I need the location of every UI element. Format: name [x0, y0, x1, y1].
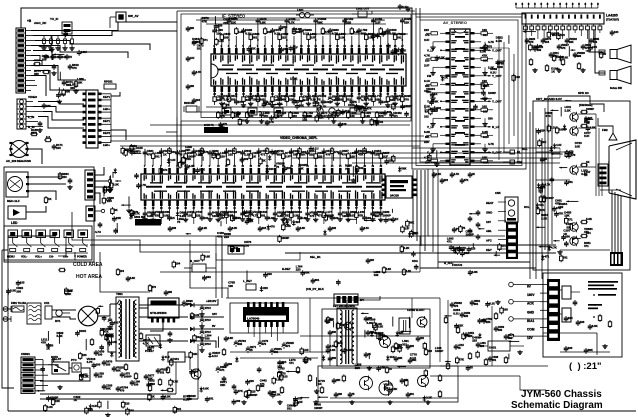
- part 395 lj: [116, 223, 118, 233]
- svg-text:8V: 8V: [212, 324, 216, 328]
- svg-text:103: 103: [106, 363, 111, 367]
- part 743 bsd: [293, 401, 295, 403]
- svg-text:471: 471: [545, 255, 550, 259]
- svg-text:5.6K: 5.6K: [364, 114, 370, 118]
- svg-text:220: 220: [410, 344, 415, 348]
- flyback T901: [337, 308, 357, 366]
- part 163 above U301: [339, 163, 341, 166]
- svg-text:104: 104: [176, 261, 181, 265]
- part 212 L-U401: [440, 83, 446, 85]
- wire pin5: [556, 30, 558, 36]
- part 541 df: [373, 321, 375, 323]
- capacitor C8: [59, 54, 61, 56]
- svg-text:22K: 22K: [338, 341, 343, 345]
- wire crt internal: [544, 108, 546, 250]
- svg-text:3.3K: 3.3K: [406, 269, 412, 273]
- ground pw: [59, 385, 61, 387]
- svg-text:2.2K: 2.2K: [199, 168, 205, 172]
- part 351 defl: [409, 358, 411, 360]
- part 637 tif: [371, 19, 385, 21]
- grounds defl: [243, 400, 245, 402]
- svg-text:47K: 47K: [482, 54, 488, 58]
- connector CN301: [85, 170, 95, 200]
- svg-text:223: 223: [262, 226, 267, 230]
- svg-text:ACK: ACK: [527, 302, 535, 306]
- svg-text:223: 223: [150, 382, 155, 386]
- svg-text:104: 104: [204, 216, 209, 220]
- part 594 crt: [565, 241, 567, 243]
- resistor R267: [580, 164, 582, 166]
- capacitor C39: [201, 317, 203, 319]
- part 440 mid: [412, 251, 414, 253]
- part 689 jb: [293, 220, 295, 222]
- part 114 below U101: [394, 92, 396, 95]
- part 694 jb: [248, 216, 250, 218]
- part 223 R-U401: [475, 41, 482, 43]
- line filter L801: [27, 303, 41, 324]
- svg-text:47K: 47K: [238, 389, 243, 393]
- part 190 below U301: [315, 206, 317, 211]
- svg-text:681: 681: [425, 135, 430, 139]
- svg-text:100: 100: [129, 409, 134, 413]
- part 155 above U301: [274, 163, 276, 166]
- part 140 above U301: [152, 163, 154, 166]
- svg-text:1K: 1K: [114, 208, 118, 212]
- svg-text:SEL_B1: SEL_B1: [310, 255, 321, 259]
- IC U601 LA4285: [522, 13, 604, 24]
- part 754 rm2: [459, 225, 461, 227]
- svg-text:470: 470: [560, 33, 565, 37]
- capacitor C47: [103, 384, 105, 386]
- svg-text:100: 100: [385, 31, 390, 35]
- svg-text:8ohm 5W: 8ohm 5W: [610, 86, 622, 90]
- pin caps row: [515, 3, 517, 9]
- part 583 au: [548, 31, 550, 33]
- svg-text:470: 470: [465, 333, 470, 337]
- svg-text:470: 470: [222, 122, 227, 126]
- part 473 pw1: [47, 331, 49, 341]
- resistor R315: [609, 320, 611, 322]
- part 394 lj: [103, 197, 105, 199]
- part 216 L-U401: [440, 117, 446, 119]
- svg-text:0.1U: 0.1U: [410, 356, 416, 360]
- part 407 lj: [128, 196, 130, 208]
- svg-text:1K: 1K: [48, 197, 52, 201]
- part 484 pw1: [85, 339, 87, 350]
- resistor R252: [530, 58, 532, 60]
- part 604 tl: [53, 53, 64, 55]
- part 719 pbs: [126, 408, 128, 410]
- part 214 L-U401: [440, 100, 446, 102]
- part 364 defl2: [447, 362, 449, 364]
- svg-text:56K: 56K: [106, 387, 111, 391]
- top parts right: [399, 4, 401, 6]
- svg-text:56K: 56K: [299, 103, 304, 107]
- svg-text:47K: 47K: [555, 202, 561, 206]
- part 504 pw2: [170, 379, 172, 381]
- part 429 b2: [273, 104, 283, 106]
- svg-text:1UF: 1UF: [165, 355, 171, 359]
- part 158 above U301: [299, 163, 301, 166]
- part 93 below U101: [243, 92, 245, 95]
- part 178 below U301: [217, 206, 219, 211]
- part 610 avl: [429, 107, 431, 109]
- svg-text:1UF: 1UF: [297, 400, 303, 404]
- svg-text:56K: 56K: [433, 100, 438, 104]
- part 148 above U301: [217, 163, 219, 166]
- svg-text:22K: 22K: [192, 352, 197, 356]
- svg-text:1K: 1K: [472, 172, 475, 176]
- part 486 pw1: [111, 351, 113, 353]
- part 731 df2: [396, 331, 398, 333]
- part 358 defl2: [309, 374, 311, 376]
- svg-text:223: 223: [31, 131, 36, 135]
- part 498 pw2: [148, 346, 150, 348]
- svg-text:RP201: RP201: [104, 80, 113, 84]
- part 704 jb: [411, 230, 413, 232]
- CRT board outline: [533, 101, 630, 270]
- part 571 au: [536, 44, 538, 46]
- part 157 above U301: [290, 163, 292, 166]
- capacitor C204: [329, 226, 331, 228]
- bridge D801: [78, 306, 98, 326]
- part 742 df2: [392, 345, 394, 347]
- svg-text:223: 223: [444, 178, 449, 182]
- svg-text:3.3K: 3.3K: [482, 130, 489, 134]
- part 748 bsd: [295, 399, 297, 401]
- part 713 pwl: [98, 305, 103, 307]
- part 304 crtb: [553, 240, 559, 242]
- wire crt rgb out: [578, 113, 596, 115]
- svg-text:330: 330: [292, 114, 297, 118]
- resistor R29: [80, 249, 86, 252]
- part 452 mid: [264, 272, 266, 274]
- wire IR links: [30, 172, 60, 177]
- part 63 above U101: [221, 44, 223, 48]
- svg-text:503F30: 503F30: [184, 101, 194, 105]
- svg-text:1UF: 1UF: [556, 143, 562, 147]
- part 454 mid: [312, 278, 314, 280]
- part 236 R-U401: [475, 151, 482, 153]
- part 159 above U301: [307, 163, 309, 166]
- svg-text:C_IN: C_IN: [427, 150, 434, 154]
- transistor Q270: [570, 237, 578, 245]
- part 172 below U301: [168, 206, 170, 211]
- part 520 vo: [278, 371, 280, 373]
- part 557 brm: [508, 354, 510, 360]
- part 523 vo: [279, 360, 281, 362]
- svg-text:2.2K: 2.2K: [358, 105, 364, 109]
- part 716 pwl: [101, 329, 103, 331]
- part 736 df2: [327, 348, 329, 350]
- part 529 df: [386, 366, 388, 368]
- capacitor C6: [45, 54, 47, 56]
- svg-text:3.3K: 3.3K: [266, 102, 272, 106]
- resistor R269: [580, 221, 582, 223]
- svg-text:4.7K: 4.7K: [143, 341, 150, 345]
- part 226 R-U401: [475, 66, 482, 68]
- svg-text:470: 470: [487, 45, 492, 49]
- svg-text:5.6K: 5.6K: [386, 267, 392, 271]
- part 646 tif: [229, 17, 237, 19]
- pin 10 U601: [579, 26, 583, 30]
- part 439 b2: [392, 102, 394, 104]
- part 402 lj: [109, 176, 111, 180]
- part 666 ja: [266, 167, 268, 169]
- part 679 ja: [168, 158, 170, 160]
- wire stub6: [282, 327, 284, 333]
- svg-text:104: 104: [483, 33, 488, 37]
- part 105 below U101: [329, 92, 331, 95]
- part 154 above U301: [266, 163, 268, 166]
- wire audio R: [595, 30, 605, 73]
- part 448 mid: [202, 254, 204, 256]
- svg-text:56K: 56K: [588, 348, 593, 352]
- svg-text:10K: 10K: [398, 356, 403, 360]
- wire pin8: [574, 30, 576, 33]
- svg-text:102: 102: [62, 55, 67, 59]
- svg-text:331: 331: [508, 336, 513, 340]
- capacitor C325: [489, 356, 491, 358]
- svg-text:MENU: MENU: [7, 255, 15, 259]
- connector CN302: [86, 206, 95, 221]
- part 422 b2: [339, 122, 341, 124]
- part 469 rm: [457, 247, 459, 249]
- svg-text:10K: 10K: [482, 156, 488, 160]
- svg-text:104: 104: [368, 97, 373, 101]
- part 530 df: [389, 387, 391, 389]
- svg-text:75: 75: [345, 167, 349, 171]
- vertical out U303 frame: [230, 303, 298, 333]
- svg-text:22K: 22K: [355, 366, 361, 370]
- part 70 above U101: [271, 44, 273, 48]
- part 492 pw2: [161, 389, 169, 391]
- part 91 below U101: [228, 92, 230, 95]
- part 112 below U101: [380, 92, 382, 95]
- svg-text:471: 471: [203, 38, 208, 42]
- svg-text:100: 100: [482, 28, 487, 32]
- svg-text:220: 220: [278, 370, 283, 374]
- part 680 ja: [160, 167, 162, 169]
- part 709 jb: [121, 204, 131, 206]
- svg-text:75: 75: [51, 358, 55, 362]
- svg-text:103: 103: [331, 114, 336, 118]
- svg-text:223: 223: [424, 28, 429, 32]
- svg-text:1K: 1K: [444, 75, 448, 79]
- part 428 b2: [371, 118, 373, 120]
- svg-text:GND: GND: [486, 210, 492, 214]
- svg-text:SCL: SCL: [524, 205, 530, 209]
- capacitor C319: [483, 318, 485, 320]
- svg-text:5.6K: 5.6K: [204, 255, 210, 259]
- svg-text:1K: 1K: [262, 158, 266, 162]
- svg-text:331: 331: [481, 318, 486, 322]
- part 737 df2: [333, 321, 335, 328]
- wire jungle-defl vlink: [221, 236, 223, 298]
- svg-text:22K: 22K: [274, 149, 279, 153]
- part 593 crt: [572, 237, 581, 239]
- part 613 avl: [431, 100, 433, 102]
- wire to bridge: [52, 309, 76, 311]
- IC U302 eeprom: [386, 176, 412, 198]
- part 544 df: [371, 331, 373, 333]
- svg-text:4.7K: 4.7K: [134, 212, 140, 216]
- svg-text:470: 470: [270, 225, 275, 229]
- part 365 defl2: [333, 378, 335, 380]
- svg-text:223: 223: [224, 235, 229, 239]
- part 95 below U101: [257, 92, 259, 95]
- resistor R5: [71, 36, 73, 39]
- svg-text:FM: FM: [427, 74, 432, 78]
- svg-text:47K: 47K: [41, 341, 47, 345]
- H block outline: [322, 309, 430, 368]
- resistor R56: [159, 378, 161, 380]
- part 632 tif: [215, 24, 217, 26]
- diode D60: [209, 352, 211, 354]
- part 759 cs: [17, 280, 19, 282]
- svg-text:CRT_BOARD 6.3V: CRT_BOARD 6.3V: [536, 97, 562, 101]
- part 198 below U301: [380, 206, 382, 211]
- capacitor C244: [534, 46, 536, 48]
- part 279 crtb: [554, 143, 556, 145]
- part 162 above U301: [331, 163, 333, 166]
- pin 3 U601: [536, 26, 540, 30]
- svg-text:22K: 22K: [185, 148, 191, 152]
- part 161 above U301: [323, 163, 325, 166]
- capacitor C240: [451, 172, 453, 174]
- svg-text:75: 75: [177, 220, 181, 224]
- LED D201: [8, 206, 26, 219]
- capacitor C323: [477, 342, 479, 344]
- part 359 defl2: [321, 386, 323, 388]
- part 303 crtb: [540, 186, 542, 188]
- svg-text:2.2K: 2.2K: [202, 226, 208, 230]
- svg-text:470: 470: [152, 285, 157, 289]
- svg-text:223: 223: [62, 175, 67, 179]
- svg-text:104: 104: [378, 120, 383, 124]
- svg-text:470: 470: [404, 97, 409, 101]
- svg-text:2.2K: 2.2K: [106, 198, 112, 202]
- part 403 lj: [131, 212, 133, 214]
- U901 block: [488, 341, 510, 351]
- part 488 pw1: [101, 345, 103, 347]
- part 382 mid: [149, 284, 151, 286]
- part 352 defl: [425, 348, 427, 350]
- svg-text:104: 104: [614, 30, 619, 34]
- part 597 tl: [59, 72, 61, 81]
- part 735 df2: [392, 317, 394, 327]
- part 628 tif: [387, 43, 389, 45]
- part 657 ja: [333, 152, 335, 161]
- svg-text:LED: LED: [11, 221, 18, 225]
- part 408 lj: [133, 152, 142, 154]
- svg-text:471: 471: [485, 83, 490, 87]
- svg-text:COM: COM: [527, 328, 535, 332]
- capacitor C316: [451, 302, 453, 304]
- capacitor C134: [193, 98, 195, 100]
- filter CF136: [248, 108, 257, 115]
- part 640 tif: [215, 38, 217, 40]
- resistor R57: [167, 366, 169, 368]
- part 514 vo: [272, 392, 274, 394]
- capacitor C50: [145, 374, 147, 376]
- part 211 L-U401: [440, 75, 446, 77]
- svg-text:103: 103: [483, 109, 488, 113]
- IR receiver U201: [6, 172, 28, 197]
- svg-text:5.6K: 5.6K: [424, 130, 431, 134]
- part 746 bsd: [300, 397, 310, 399]
- switch SW204: [50, 230, 60, 238]
- capacitor C320: [495, 326, 497, 328]
- wire defl mesh: [226, 297, 440, 299]
- capacitor C133: [187, 84, 189, 86]
- part 673 ja: [399, 166, 401, 168]
- part 405 lj: [114, 168, 116, 170]
- svg-text:223: 223: [471, 247, 476, 251]
- part 357 defl2: [297, 366, 299, 368]
- connector SM: [510, 160, 515, 164]
- part 176 below U301: [201, 206, 203, 211]
- part 309 crtb: [566, 150, 568, 152]
- part 92 below U101: [235, 92, 237, 95]
- part 547 df: [400, 330, 411, 332]
- svg-text:104: 104: [586, 231, 591, 235]
- svg-text:220: 220: [425, 58, 430, 62]
- svg-text:470: 470: [109, 334, 114, 338]
- part 575 au: [553, 54, 555, 56]
- part 702 jb: [406, 220, 408, 222]
- svg-text:681: 681: [252, 35, 257, 39]
- svg-text:223: 223: [281, 35, 286, 39]
- svg-text:1K: 1K: [182, 162, 186, 166]
- part 569 brm: [456, 356, 458, 358]
- part 568 brm: [455, 323, 457, 325]
- svg-text:3.3K: 3.3K: [275, 378, 281, 382]
- part 192 below U301: [331, 206, 333, 211]
- part 505 pw2: [190, 351, 192, 353]
- wire degauss loop: [69, 367, 72, 369]
- part 94 below U101: [250, 92, 252, 95]
- svg-text:220: 220: [190, 26, 195, 30]
- wire frame links: [560, 351, 610, 353]
- svg-text:3.3K: 3.3K: [113, 182, 119, 186]
- B_OUT filter: [192, 264, 206, 272]
- svg-text:HOT AREA: HOT AREA: [76, 274, 102, 280]
- svg-text:1K: 1K: [586, 121, 590, 125]
- part 312 crtb: [551, 153, 563, 155]
- svg-text:75: 75: [151, 346, 155, 350]
- capacitor C48: [117, 386, 119, 388]
- part 372 vout: [233, 384, 235, 386]
- drive transformer T302: [399, 318, 410, 334]
- svg-text:X301 8M: X301 8M: [134, 215, 146, 219]
- wire below U301 buses: [96, 235, 430, 237]
- wire mid link1: [72, 212, 210, 252]
- capacitor C44: [95, 372, 97, 374]
- part 298 crtb: [538, 139, 540, 141]
- svg-text:471: 471: [220, 368, 225, 372]
- svg-text:102: 102: [424, 114, 429, 118]
- part 642 tif: [281, 47, 283, 49]
- svg-text:75: 75: [389, 367, 393, 371]
- part 589 crt: [586, 118, 593, 120]
- part 542 df: [423, 396, 425, 398]
- part 215 L-U401: [440, 109, 446, 111]
- svg-text:330: 330: [70, 86, 75, 90]
- part 166 above U301: [364, 163, 366, 166]
- resistor R35: [191, 312, 193, 314]
- transistor Q354: [379, 381, 393, 395]
